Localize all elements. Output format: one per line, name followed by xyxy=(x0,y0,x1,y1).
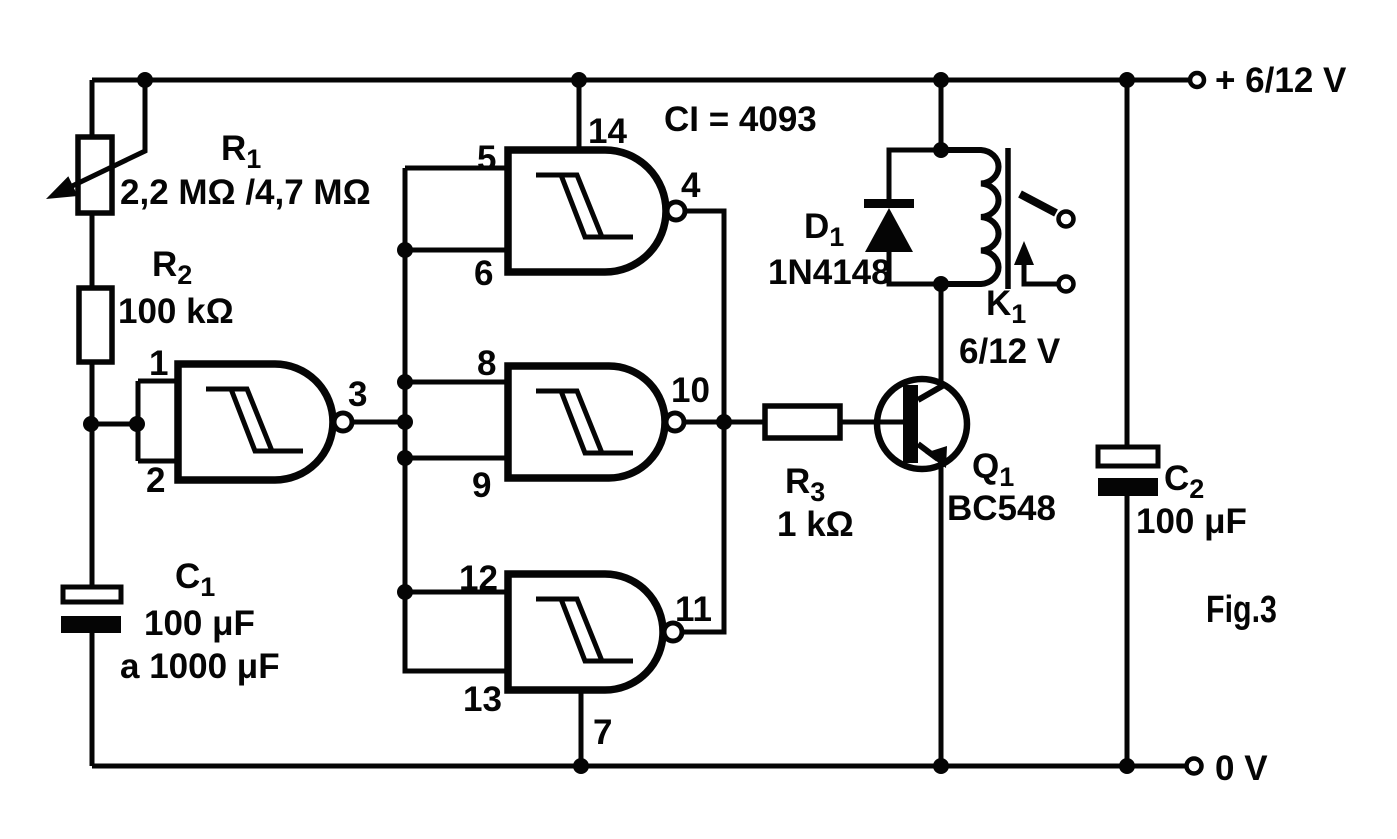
IC1b output bubble pin4 xyxy=(667,202,685,220)
resistor R2 body xyxy=(79,288,112,362)
svg-text:12: 12 xyxy=(459,559,498,598)
node bracket junction xyxy=(129,416,145,432)
svg-text:4: 4 xyxy=(681,166,701,205)
svg-text:10: 10 xyxy=(671,371,710,410)
resistor R3 body xyxy=(765,406,840,438)
diode D1 cathode bar xyxy=(864,199,914,208)
wire C2 lower xyxy=(1125,496,1130,766)
IC1d output bubble pin11 xyxy=(664,623,682,641)
wire diode loop xyxy=(889,150,941,284)
wire pin5 xyxy=(405,166,508,171)
svg-text:3: 3 xyxy=(348,375,367,414)
svg-text:1 kΩ: 1 kΩ xyxy=(777,505,854,544)
IC1b hysteresis symbol xyxy=(536,175,633,237)
wire top supply rail xyxy=(92,78,1190,83)
node relay bottom xyxy=(933,276,949,292)
wire pin6 xyxy=(405,248,508,253)
node bus pin9 xyxy=(397,450,413,466)
IC1c output bubble pin10 xyxy=(666,413,684,431)
svg-text:7: 7 xyxy=(593,713,612,752)
svg-text:2,2 MΩ /4,7 MΩ: 2,2 MΩ /4,7 MΩ xyxy=(120,173,371,212)
node Q1 emitter on rail xyxy=(933,758,949,774)
IC1a output bubble pin3 xyxy=(334,413,352,431)
Q1 base bar xyxy=(903,385,918,463)
svg-text:100 kΩ: 100 kΩ xyxy=(118,292,234,331)
node left rail to bracket xyxy=(83,416,99,432)
terminal +6/12V circle xyxy=(1190,73,1204,87)
node bus pin12 xyxy=(397,584,413,600)
wire R3 to base xyxy=(840,420,903,425)
terminal 0V circle xyxy=(1187,759,1202,774)
wire supply to relay xyxy=(939,80,944,150)
relay K1 contact upper xyxy=(1059,212,1074,227)
capacitor C1 bottom plate xyxy=(61,616,121,633)
wire Q1 collector up xyxy=(939,285,944,387)
node outputs junction xyxy=(716,414,732,430)
svg-text:6: 6 xyxy=(474,254,493,293)
NAND gate IC1a body xyxy=(178,364,333,480)
svg-text:0 V: 0 V xyxy=(1215,749,1268,788)
IC1a hysteresis symbol xyxy=(206,389,303,451)
NAND gate IC1d body xyxy=(508,574,663,690)
node relay branch top junction xyxy=(933,72,949,88)
relay K1 actuation arrowhead xyxy=(1014,241,1034,265)
IC1c hysteresis symbol xyxy=(536,391,633,453)
node C2 on rail xyxy=(1119,758,1135,774)
transistor Q1 circle xyxy=(877,379,967,469)
IC1d hysteresis symbol xyxy=(536,599,633,661)
wire pin9 xyxy=(405,456,508,461)
wire node3 to bus xyxy=(352,420,405,425)
NAND gate IC1b body xyxy=(508,150,666,272)
NAND gate IC1c body xyxy=(508,366,665,478)
wire input bus vertical xyxy=(405,168,508,671)
svg-text:1N4148: 1N4148 xyxy=(768,253,891,292)
Q1 emitter stroke xyxy=(918,444,938,459)
svg-text:100 μF: 100 μF xyxy=(144,604,255,643)
svg-text:a 1000 μF: a 1000 μF xyxy=(120,647,280,686)
node bus node3 xyxy=(397,414,413,430)
wire pin7 to 0V xyxy=(579,690,584,766)
diode D1 triangle xyxy=(865,208,913,252)
wire pin12 xyxy=(405,590,508,595)
svg-text:11: 11 xyxy=(675,590,712,629)
relay K1 core bar xyxy=(1005,148,1011,289)
wire C2 upper xyxy=(1125,80,1130,447)
node bus pin8 xyxy=(397,374,413,390)
wire bottom 0V rail xyxy=(92,764,1186,769)
node C2 top junction xyxy=(1119,72,1135,88)
svg-text:+ 6/12 V: + 6/12 V xyxy=(1215,61,1347,100)
wire pin10 output to R3 xyxy=(684,420,765,425)
capacitor C1 top plate xyxy=(63,587,121,602)
svg-text:CI = 4093: CI = 4093 xyxy=(664,100,817,139)
wire pin4 output loop xyxy=(685,211,724,422)
Q1 emitter arrowhead xyxy=(925,446,947,468)
wire pin11 output loop xyxy=(682,422,724,632)
wire pin8 xyxy=(405,380,508,385)
svg-text:14: 14 xyxy=(588,112,627,151)
capacitor C2 top plate xyxy=(1098,447,1158,466)
svg-text:6/12 V: 6/12 V xyxy=(959,332,1061,371)
wire R1 wiper arm xyxy=(68,80,145,188)
svg-text:Fig.3: Fig.3 xyxy=(1206,589,1277,631)
resistor R1 (adjustable) body xyxy=(78,137,112,213)
svg-text:2: 2 xyxy=(146,461,165,500)
node bus pin6 xyxy=(397,242,413,258)
R1 wiper arrowhead xyxy=(46,176,78,199)
svg-text:BC548: BC548 xyxy=(947,489,1056,528)
svg-text:9: 9 xyxy=(472,466,491,505)
wire gate1 input bracket xyxy=(92,381,178,461)
relay K1 coil xyxy=(941,150,999,284)
relay K1 contact lower xyxy=(1059,277,1074,292)
relay K1 actuation arm xyxy=(1024,262,1058,284)
wire pin14 from rail xyxy=(577,80,582,150)
svg-text:100 μF: 100 μF xyxy=(1136,502,1247,541)
capacitor C2 bottom plate xyxy=(1098,478,1158,496)
svg-text:8: 8 xyxy=(477,344,496,383)
wire Q1 emitter down xyxy=(939,462,944,766)
svg-text:1: 1 xyxy=(149,344,168,383)
svg-text:13: 13 xyxy=(463,680,502,719)
Q1 collector stroke xyxy=(918,385,944,400)
node relay top xyxy=(933,142,949,158)
node pin14 top junction xyxy=(571,72,587,88)
relay K1 switch blade xyxy=(1020,194,1056,213)
node top-left wiper junction xyxy=(137,72,153,88)
svg-text:5: 5 xyxy=(477,139,496,178)
wire left rail xyxy=(90,80,95,766)
node pin7 on rail xyxy=(573,758,589,774)
